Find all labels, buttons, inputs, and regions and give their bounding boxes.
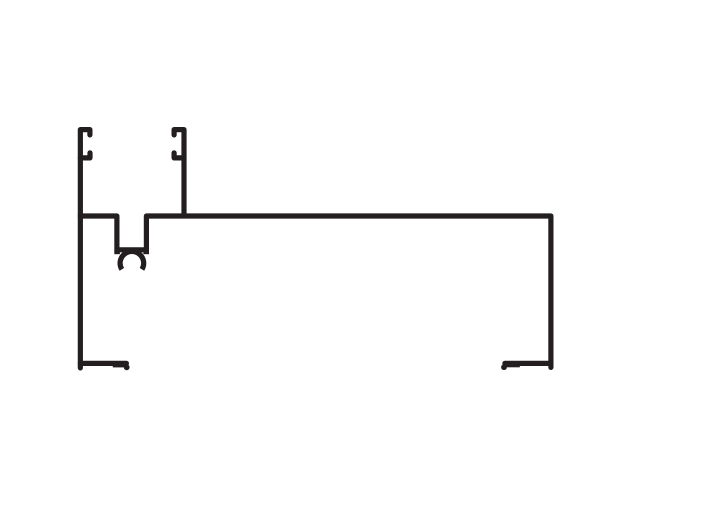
screw boss ring — [120, 251, 144, 269]
left flange tip nub — [124, 364, 130, 370]
left wall with top glazing hook — [80, 130, 90, 368]
U channel right ear — [143, 250, 149, 254]
inner channel lower lip — [174, 153, 184, 158]
U channel left ear — [114, 250, 120, 254]
right flange tip nub — [501, 364, 507, 370]
left flange underside step — [113, 364, 127, 368]
right flange underside step — [504, 364, 520, 368]
inner wall with top glazing hook — [174, 130, 184, 215]
bottom right flange — [505, 361, 551, 366]
left channel lower lip — [80, 153, 90, 158]
bottom left flange — [80, 361, 126, 366]
main web: left shelf, U channel, long top web, right wall — [80, 216, 551, 367]
